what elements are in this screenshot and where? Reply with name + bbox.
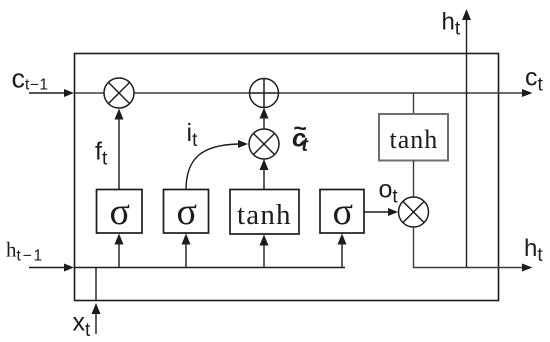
wire tanh2 to multiply3 [413, 161, 415, 198]
multiply node (forget gate) [104, 78, 134, 108]
label c~_t [292, 115, 309, 156]
svg-text:σ: σ [110, 191, 130, 233]
wire multiply3 down and right to h_t output [414, 227, 525, 268]
svg-text:tanh: tanh [390, 125, 439, 154]
svg-text:σ: σ [333, 191, 353, 233]
outer LSTM cell box [75, 54, 499, 301]
wire h_t branch up through top [462, 9, 471, 268]
wire up arrow into sigma3 [338, 234, 347, 268]
wire i curved arrow (sigma2 to multiply2) [186, 140, 248, 190]
tanh box 1 (candidate) [230, 190, 299, 235]
wire c output arrowhead [522, 89, 533, 97]
wire riser from x_t junction up to h line [95, 268, 97, 301]
wire tanh1 to multiply2 arrow [260, 159, 269, 190]
wire h output arrowhead [522, 264, 533, 272]
svg-text:t: t [302, 135, 309, 156]
add node [250, 79, 279, 108]
wire up arrow into sigma1 [115, 234, 124, 268]
wire cell-state line (c) [75, 92, 524, 94]
wire up arrow into sigma2 [182, 234, 191, 268]
wire c_{t-1} input arrow [29, 89, 74, 97]
sigma box 3 (output gate) [320, 190, 364, 234]
wire up arrow into tanh1 [260, 235, 269, 268]
svg-text:σ: σ [177, 191, 197, 233]
wire multiply2 to add arrow [260, 108, 269, 130]
wire h_{t-1} line inside cell [75, 267, 345, 269]
wire c-line branch down to tanh2 [413, 93, 415, 114]
sigma box 2 (input gate) [164, 190, 209, 234]
wire x_t input arrow [92, 303, 101, 334]
wire f arrow (sigma1 to multiply) [115, 109, 124, 191]
svg-text:tanh: tanh [237, 199, 292, 231]
wire h_{t-1} input arrow [29, 264, 74, 272]
tanh box 2 (output squash) [379, 114, 448, 161]
multiply node 2 (candidate) [249, 129, 279, 159]
sigma box 1 (forget gate) [97, 190, 143, 234]
wire o arrow (sigma3 to multiply3) [364, 208, 398, 216]
multiply node 3 (output) [399, 197, 429, 227]
